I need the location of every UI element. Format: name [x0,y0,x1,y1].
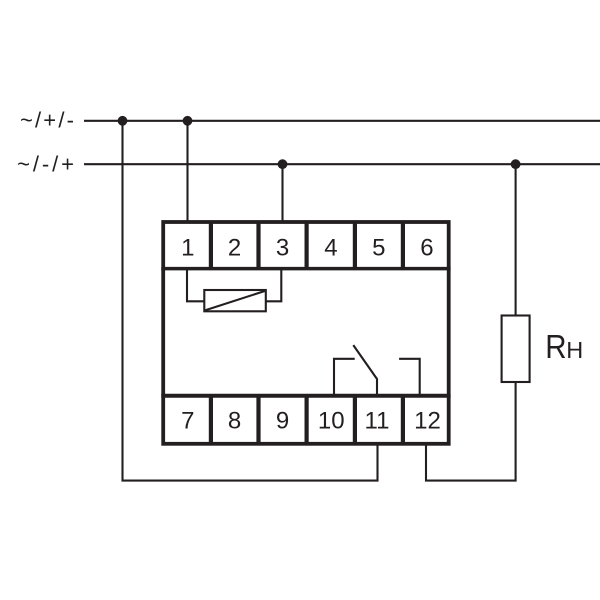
svg-text:H: H [566,337,583,363]
wire J1 down left side and along bottom to terminal 11 [123,121,378,481]
wire RH bottom to terminal 12 [426,382,516,481]
relay coil (rectangle with diagonal) [204,290,265,311]
supply line ~/+/- [84,120,600,122]
load resistor RH body [502,316,530,383]
wire coil right to terminal 3 [266,269,282,302]
supply line ~/-/+ [84,163,600,165]
terminal cell dividers top row [211,222,403,269]
svg-text:3: 3 [276,235,289,262]
terminal strip bottom row top border [161,394,450,398]
svg-text:2: 2 [228,235,241,262]
svg-text:5: 5 [372,235,385,262]
svg-text:9: 9 [276,407,289,434]
svg-text:11: 11 [365,407,390,434]
terminal strip top row bottom border [161,267,450,271]
svg-text:12: 12 [414,407,441,434]
svg-text:~/+/-: ~/+/- [20,107,76,132]
wire J2 to terminal 1 [186,121,188,222]
junction J2 on line ~/+/- [183,116,193,126]
changeover contact: movable blade from terminal 11 [353,345,377,396]
junction J4 on line ~/-/+ [511,159,521,169]
svg-text:R: R [545,328,566,365]
svg-text:7: 7 [181,407,194,434]
changeover contact: terminal 12 fixed contact [399,359,420,396]
svg-text:4: 4 [324,235,337,262]
wire J4 down to RH top [515,164,517,316]
svg-text:~/-/+: ~/-/+ [17,152,77,177]
wire terminal 1 to coil left [187,269,204,302]
relay module box outline [163,222,449,444]
svg-text:10: 10 [318,407,345,434]
terminal cell dividers bottom row [211,396,403,444]
changeover contact: terminal 10 fixed contact [334,359,355,396]
wire J3 to terminal 3 [281,164,283,222]
svg-text:1: 1 [181,235,194,262]
svg-text:6: 6 [420,235,433,262]
svg-text:8: 8 [228,407,241,434]
junction J1 on line ~/+/- [118,116,128,126]
junction J3 on line ~/-/+ [278,159,288,169]
